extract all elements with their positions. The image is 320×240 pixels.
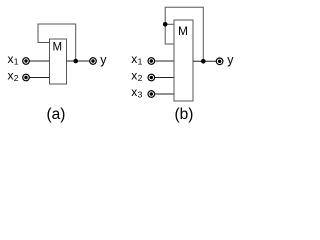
terminal y (b) <box>216 58 223 65</box>
terminal x1 (a) <box>23 58 30 65</box>
wire x1 input (b) <box>154 60 174 62</box>
junction dot top (b) <box>163 22 168 27</box>
terminal y (a) <box>90 58 97 65</box>
wire x1 input (a) <box>29 60 50 62</box>
output wire (a) <box>67 60 91 62</box>
svg-text:(a): (a) <box>47 106 66 123</box>
junction dot (a) <box>73 59 78 64</box>
wire x3 input (b) <box>154 93 174 95</box>
output wire (b) <box>193 60 217 62</box>
svg-text:y: y <box>227 53 234 67</box>
junction dot output (b) <box>201 59 206 64</box>
block M (a) <box>50 39 67 84</box>
terminal x3 (b) <box>148 91 155 98</box>
block M (b) <box>174 20 193 101</box>
terminal x1 (b) <box>148 58 155 65</box>
feedback loop wire (a) <box>38 24 76 61</box>
svg-text:M: M <box>178 24 188 38</box>
terminal x2 (a) <box>23 74 30 81</box>
terminal x2 (b) <box>148 74 155 81</box>
wire x2 input (b) <box>154 77 174 79</box>
svg-text:M: M <box>53 42 63 54</box>
feedback loop wire (b) <box>165 7 203 61</box>
wire x2 input (a) <box>29 77 50 79</box>
svg-text:(b): (b) <box>175 106 194 123</box>
feedback branch wire (b) <box>165 23 174 25</box>
svg-text:y: y <box>100 53 107 67</box>
